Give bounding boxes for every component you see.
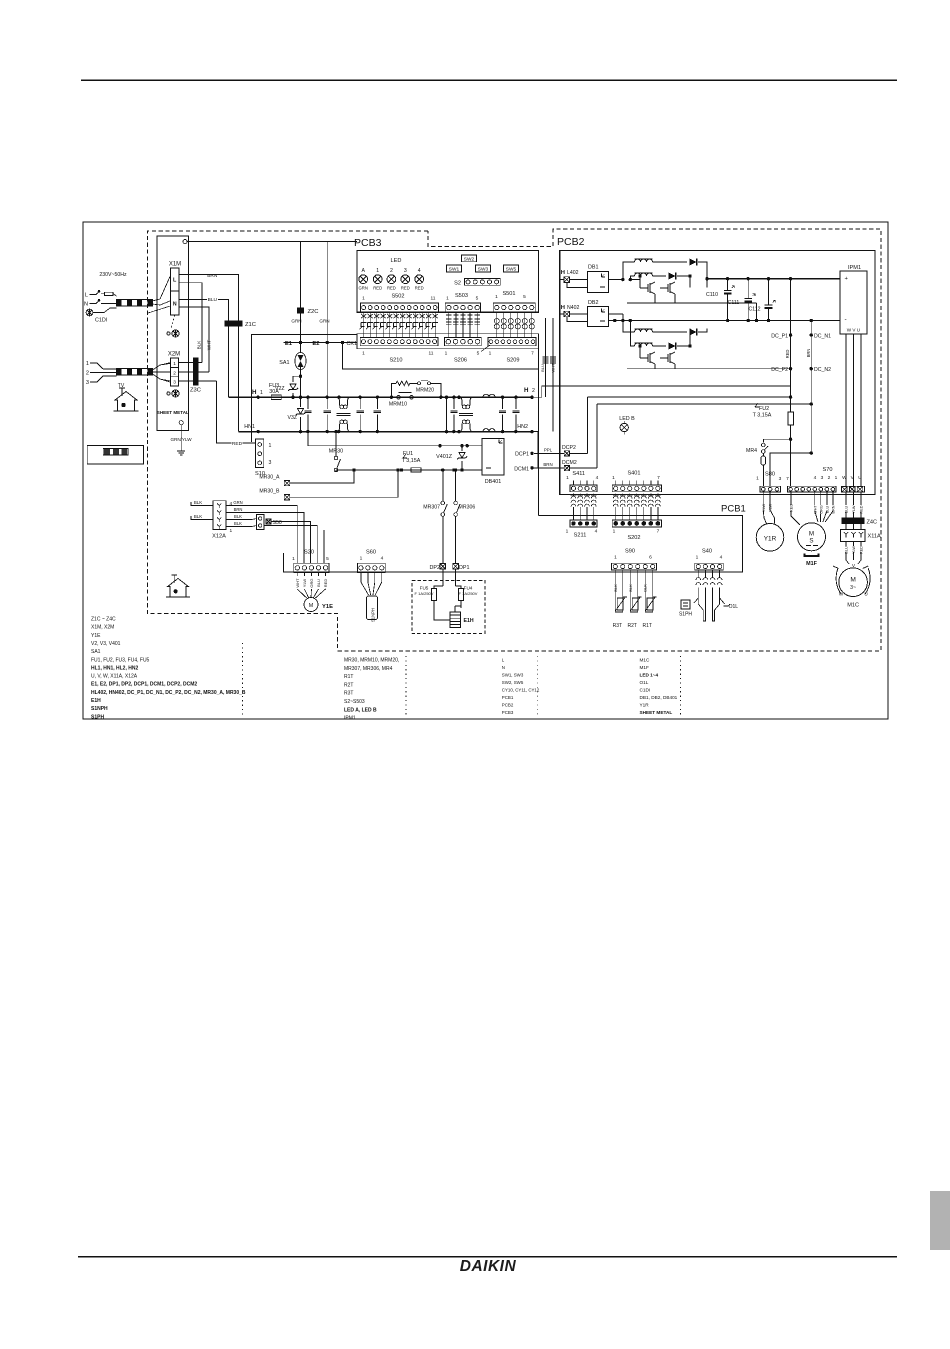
svg-text:DC_N2: DC_N2 — [814, 367, 831, 373]
svg-text:ORG: ORG — [819, 505, 823, 514]
X2M pin wires through Z3C — [179, 362, 202, 364]
svg-text:C110: C110 — [706, 292, 718, 298]
svg-text:MR307, MR306, MR4: MR307, MR306, MR4 — [344, 666, 393, 672]
svg-text:BLU: BLU — [845, 546, 849, 554]
svg-text:PCB3: PCB3 — [354, 237, 382, 249]
thermistor R3T — [615, 578, 622, 612]
svg-text:BRN: BRN — [806, 349, 811, 358]
svg-text:N402: N402 — [567, 305, 580, 311]
svg-text:O1L: O1L — [640, 680, 649, 685]
svg-text:WHT: WHT — [295, 578, 300, 588]
wire BLU from X1M N — [179, 299, 228, 397]
svg-text:3: 3 — [173, 380, 176, 386]
svg-text:O1L: O1L — [729, 604, 739, 610]
svg-text:GRN: GRN — [359, 286, 368, 291]
sheet metal plate — [157, 236, 189, 430]
svg-text:DB401: DB401 — [485, 479, 501, 485]
earth wire GRN to E1 — [300, 242, 302, 343]
inner box power section — [252, 335, 357, 443]
svg-text:S40: S40 — [702, 549, 712, 555]
svg-text:SW1, SW3: SW1, SW3 — [502, 673, 524, 678]
svg-text:HN2: HN2 — [517, 424, 528, 430]
svg-text:RED: RED — [860, 505, 864, 513]
svg-text:1: 1 — [230, 528, 233, 534]
svg-text:Z1C: Z1C — [245, 322, 256, 328]
supply earth symbol — [86, 309, 93, 316]
svg-text:E1H: E1H — [91, 698, 101, 704]
svg-text:HL402, HN402, DC_P1, DC_N1, DC: HL402, HN402, DC_P1, DC_N1, DC_P2, DC_N2… — [91, 690, 246, 696]
wire HN2 to DCM1 — [532, 432, 538, 468]
svg-text:7: 7 — [786, 476, 789, 482]
wire DC_N1 column — [810, 319, 813, 322]
wire E2 to N bus — [326, 343, 328, 410]
svg-text:4: 4 — [230, 501, 233, 507]
capacitor column mid — [445, 396, 448, 399]
connector S206 — [445, 338, 482, 346]
svg-text:1: 1 — [86, 361, 89, 367]
wire BLK from X1M L down to X2M 1 — [179, 283, 202, 363]
svg-text:5: 5 — [523, 294, 526, 300]
svg-text:2: 2 — [173, 370, 176, 376]
svg-text:R3T: R3T — [613, 623, 622, 629]
terminal DP1 — [453, 564, 459, 570]
page bottom rule — [78, 1256, 897, 1258]
svg-text:C111: C111 — [728, 300, 740, 306]
svg-text:C1DI: C1DI — [95, 318, 107, 324]
svg-text:1: 1 — [495, 294, 498, 300]
wire FU2 to S80 — [790, 439, 792, 448]
choke hook on H bus — [483, 394, 495, 397]
node DC_N2 — [810, 367, 813, 370]
X1M earth lead — [171, 315, 175, 329]
svg-text:GRN: GRN — [319, 319, 329, 324]
legend separator 3 — [536, 656, 538, 716]
svg-text:3: 3 — [404, 268, 407, 274]
connector S10 — [256, 439, 264, 468]
DC minus rail — [609, 320, 840, 322]
svg-text:Y1R: Y1R — [764, 536, 777, 543]
svg-text:3: 3 — [821, 475, 824, 481]
svg-text:LED: LED — [391, 258, 402, 264]
svg-text:S: S — [809, 538, 813, 545]
svg-text:MRM10: MRM10 — [389, 402, 407, 408]
svg-text:WHT: WHT — [551, 363, 556, 373]
thermistor R2T — [630, 578, 637, 612]
svg-text:RED: RED — [860, 546, 864, 554]
compressor wires — [845, 492, 847, 505]
svg-text:L: L — [85, 293, 88, 299]
svg-text:1: 1 — [446, 296, 449, 302]
svg-text:DAIKIN: DAIKIN — [460, 1258, 517, 1275]
PCB3 connector row box — [357, 334, 539, 349]
PCB3 board outline — [357, 250, 539, 312]
svg-text:DCP1: DCP1 — [515, 452, 529, 458]
svg-text:V3Z: V3Z — [287, 415, 297, 421]
S503 protection components — [448, 312, 450, 337]
legend separator 4 — [679, 656, 681, 716]
svg-text:MR307: MR307 — [423, 505, 440, 511]
svg-text:BLK: BLK — [194, 500, 202, 505]
svg-text:M: M — [850, 577, 856, 584]
wire H bus branch to DB401 — [308, 432, 482, 446]
svg-text:S20: S20 — [304, 550, 314, 556]
svg-text:1: 1 — [362, 351, 365, 357]
svg-text:S401: S401 — [627, 471, 640, 477]
fan motor M1F — [790, 492, 792, 505]
wire WHT to HN2 — [552, 318, 554, 432]
svg-text:S502: S502 — [391, 294, 404, 300]
S411 pin stubs — [572, 481, 574, 485]
resistor MRM20 bypass — [391, 383, 396, 397]
thermistor R1T — [645, 578, 652, 612]
wire MR30_B — [290, 470, 398, 497]
svg-text:BLU: BLU — [845, 506, 849, 514]
svg-text:BLK: BLK — [234, 514, 242, 519]
svg-text:1: 1 — [260, 390, 263, 396]
svg-text:7: 7 — [657, 529, 660, 535]
earth wire GRN to E2 — [326, 242, 328, 343]
svg-text:S1NPH: S1NPH — [91, 706, 108, 712]
svg-text:S209: S209 — [506, 358, 519, 364]
svg-text:FU4: FU4 — [464, 586, 473, 591]
svg-text:BRN: BRN — [234, 507, 243, 512]
svg-text:H: H — [561, 305, 565, 311]
svg-text:N: N — [502, 665, 505, 670]
svg-text:1: 1 — [696, 555, 699, 561]
page top rule — [81, 79, 897, 81]
heater E1H — [450, 612, 461, 628]
svg-text:MR30_A: MR30_A — [259, 475, 280, 481]
svg-text:YLW: YLW — [852, 505, 856, 513]
svg-text:SW2: SW2 — [464, 256, 475, 262]
svg-text:3: 3 — [269, 460, 272, 466]
svg-text:X2M: X2M — [168, 352, 180, 358]
svg-text:1: 1 — [566, 529, 569, 535]
svg-text:DC_N1: DC_N1 — [814, 334, 831, 340]
svg-text:MR306: MR306 — [459, 505, 476, 511]
svg-text:5: 5 — [477, 351, 480, 357]
svg-text:R1T: R1T — [344, 674, 353, 680]
switch SW3 — [476, 265, 491, 272]
sheet metal earth GRN/YLW — [179, 421, 183, 425]
svg-text:S206: S206 — [454, 358, 467, 364]
ferrite core Z4C — [842, 518, 865, 524]
N bus wire — [238, 431, 532, 433]
svg-text:S1PH: S1PH — [679, 612, 692, 618]
svg-text:Z1C ~ Z4C: Z1C ~ Z4C — [91, 617, 116, 623]
svg-text:ORG: ORG — [309, 578, 314, 587]
svg-text:IPM1: IPM1 — [848, 265, 861, 271]
capacitor column 4 — [376, 396, 379, 399]
svg-text:GRN: GRN — [233, 500, 242, 505]
sensor S1NPH — [361, 573, 369, 596]
S502 protection components — [363, 312, 365, 337]
svg-text:1: 1 — [614, 555, 617, 561]
svg-text:1: 1 — [489, 351, 492, 357]
connector X11A — [841, 530, 866, 542]
svg-text:TV: TV — [118, 383, 125, 389]
svg-text:R2T: R2T — [628, 623, 637, 629]
svg-text:1: 1 — [566, 475, 569, 481]
inverter cell 1 (DB1) — [609, 279, 623, 281]
svg-text:5: 5 — [476, 296, 479, 302]
svg-text:3: 3 — [86, 380, 89, 386]
svg-text:RED: RED — [387, 286, 396, 291]
svg-text:S211: S211 — [574, 533, 587, 539]
oil level switch O1L — [720, 592, 725, 604]
svg-text:V2Z: V2Z — [275, 386, 285, 392]
svg-text:1: 1 — [173, 361, 176, 367]
svg-text:BLU: BLU — [316, 579, 321, 587]
page edge grey tab — [930, 1191, 950, 1250]
svg-text:SW3: SW3 — [478, 267, 489, 273]
PCB2 board outline — [560, 250, 875, 494]
svg-text:Y1E: Y1E — [322, 604, 333, 610]
svg-text:11: 11 — [429, 351, 434, 357]
svg-text:DB1, DB2, DB401: DB1, DB2, DB401 — [640, 695, 678, 700]
PCB1 board outline — [284, 516, 743, 572]
connector S210 — [360, 338, 438, 346]
wire S80 pin3 to DC_N — [770, 453, 811, 486]
svg-text:2: 2 — [828, 475, 831, 481]
svg-text:FU1, FU2, FU3, FU4, FU5: FU1, FU2, FU3, FU4, FU5 — [91, 657, 150, 663]
X12A left stubs BLK — [191, 502, 213, 506]
model plate — [87, 446, 144, 464]
wire PCB1 sense riser — [538, 334, 540, 516]
node DC_N1 — [810, 333, 813, 336]
capacitor column 1 — [306, 396, 309, 399]
svg-text:M: M — [309, 603, 314, 609]
svg-text:SA1: SA1 — [91, 649, 101, 655]
wire DC_P1 column — [789, 277, 792, 280]
svg-text:T 3,15A: T 3,15A — [402, 458, 421, 464]
svg-text:PCB3: PCB3 — [502, 710, 514, 715]
expansion valve Y1E — [297, 589, 306, 598]
connector S209 — [488, 338, 536, 346]
svg-text:W V U: W V U — [847, 328, 860, 333]
S501 relay coils — [496, 312, 498, 337]
svg-text:1: 1 — [292, 556, 295, 562]
svg-text:X1M, X2M: X1M, X2M — [91, 625, 114, 631]
svg-text:DC_P1: DC_P1 — [771, 334, 788, 340]
svg-text:U, V, W, X11A, X12A: U, V, W, X11A, X12A — [91, 674, 138, 680]
svg-text:BLU: BLU — [540, 364, 545, 372]
svg-text:RED: RED — [401, 286, 410, 291]
svg-text:-: - — [845, 316, 847, 323]
svg-text:GRN/YLW: GRN/YLW — [170, 437, 192, 442]
svg-text:HL1, HN1, HL2, HN2: HL1, HN1, HL2, HN2 — [91, 665, 138, 671]
earth wire GRN bus — [183, 240, 187, 244]
svg-text:WHT: WHT — [207, 340, 212, 351]
svg-text:BLU: BLU — [825, 506, 829, 514]
svg-text:M: M — [809, 531, 814, 538]
svg-text:SW5: SW5 — [506, 267, 517, 273]
svg-text:E1H: E1H — [464, 618, 474, 624]
svg-text:MR30, MRM10, MRM20,: MR30, MRM10, MRM20, — [344, 658, 399, 664]
ferrite core Z1C — [224, 320, 242, 326]
svg-text:LED 1~4: LED 1~4 — [640, 673, 659, 678]
svg-text:1: 1 — [445, 351, 448, 357]
wire WHT from X1M N down to X2M 2 — [179, 307, 209, 372]
compressor motor M1C — [846, 552, 849, 564]
svg-text:4: 4 — [596, 475, 599, 481]
capacitor column 5 — [501, 396, 504, 399]
svg-text:S2~S503: S2~S503 — [344, 699, 365, 705]
svg-text:FU2: FU2 — [759, 406, 769, 412]
DC plus rail — [707, 278, 840, 280]
svg-text:V401Z: V401Z — [436, 454, 453, 460]
wire DCM2 run — [596, 404, 598, 468]
svg-text:H: H — [524, 387, 529, 394]
wire DCP2 run — [587, 397, 589, 453]
svg-text:2: 2 — [86, 371, 89, 377]
connector X12A — [213, 501, 226, 530]
unit boundary dashed — [147, 229, 881, 651]
svg-text:CY10, CY11, CY12: CY10, CY11, CY12 — [502, 688, 540, 693]
S90 thermistor wires — [614, 570, 616, 578]
svg-text:4: 4 — [418, 268, 421, 274]
svg-text:5: 5 — [326, 556, 329, 562]
svg-text:V2, V3, V401: V2, V3, V401 — [91, 641, 121, 647]
svg-text:A: A — [361, 268, 365, 274]
svg-text:RED: RED — [415, 286, 424, 291]
svg-text:YLW: YLW — [302, 579, 307, 588]
svg-text:SHEET METAL: SHEET METAL — [157, 410, 189, 415]
svg-text:3~: 3~ — [850, 585, 856, 591]
svg-text:DCP2: DCP2 — [562, 445, 576, 451]
connector S202 — [612, 520, 661, 527]
svg-text:PCB1: PCB1 — [721, 504, 746, 515]
svg-text:BLU: BLU — [208, 297, 218, 303]
svg-text:E1, E2, DP1, DP2, DCP1, DCM1,: E1, E2, DP1, DP2, DCP1, DCM1, DCP2, DCM2 — [91, 682, 197, 688]
compressor lead labels — [845, 542, 847, 547]
svg-text:3: 3 — [779, 476, 782, 482]
diode bridge DB401 — [482, 438, 504, 475]
wire RED from X2M 3 to S10 — [216, 381, 255, 443]
wire E1-E2 row — [284, 342, 357, 344]
svg-text:PPL: PPL — [544, 448, 553, 453]
svg-text:S210: S210 — [389, 358, 402, 364]
svg-text:PCB1: PCB1 — [502, 695, 514, 700]
TV interference house icon — [114, 388, 139, 411]
svg-text:4: 4 — [595, 529, 598, 535]
S401 pin stubs — [615, 481, 617, 485]
option E1H dashed box — [412, 581, 485, 634]
svg-text:DB2: DB2 — [588, 300, 599, 306]
svg-text:H: H — [252, 389, 257, 396]
IPM1 output wires — [845, 334, 847, 486]
H bus wire — [228, 396, 532, 398]
switch SW1 — [447, 265, 462, 272]
common mode choke L2 — [457, 396, 460, 399]
svg-text:BRN: BRN — [207, 273, 218, 279]
svg-text:X1M: X1M — [169, 262, 181, 268]
svg-text:2: 2 — [390, 268, 393, 274]
ferrite core Z3C — [193, 357, 198, 385]
svg-text:MR30_B: MR30_B — [259, 489, 280, 495]
svg-text:RED: RED — [373, 286, 382, 291]
svg-text:M1C: M1C — [847, 603, 859, 609]
svg-text:Y1E: Y1E — [91, 633, 101, 639]
earth screw below X1M — [167, 332, 170, 335]
svg-text:1: 1 — [613, 529, 616, 535]
svg-text:7: 7 — [657, 475, 660, 481]
svg-text:E2: E2 — [312, 341, 319, 347]
S20 wire colours — [296, 573, 298, 577]
house icon bottom-left — [166, 575, 190, 597]
svg-text:F 1A/250V: F 1A/250V — [459, 591, 478, 596]
svg-text:U: U — [858, 475, 862, 481]
svg-text:BRN: BRN — [543, 462, 552, 467]
svg-text:C112: C112 — [748, 307, 760, 313]
svg-text:S1PH: S1PH — [91, 714, 104, 720]
S411 filter chokes — [572, 494, 574, 496]
svg-text:BLK: BLK — [194, 514, 202, 519]
svg-text:H: H — [561, 270, 565, 276]
svg-text:BLK: BLK — [234, 521, 242, 526]
svg-text:11: 11 — [431, 296, 436, 302]
legend separator 2 — [405, 656, 407, 716]
svg-text:1: 1 — [360, 556, 363, 562]
legend separator 1 — [242, 643, 244, 716]
svg-text:DC_P2: DC_P2 — [771, 367, 788, 373]
common mode choke L1 — [337, 396, 340, 399]
inverter cell 2 (DB2) — [609, 313, 623, 315]
relay contact MRM10 on H bus — [397, 395, 401, 399]
svg-text:M1F: M1F — [640, 665, 650, 670]
switch SW5 — [504, 265, 519, 272]
wire HL2 to FU2 column — [532, 386, 791, 397]
svg-text:1: 1 — [835, 475, 838, 481]
connector S211 — [570, 520, 597, 527]
svg-text:X12A: X12A — [212, 534, 226, 540]
svg-text:6: 6 — [649, 555, 652, 561]
svg-text:E1: E1 — [285, 341, 293, 347]
wire from S209 pin1 — [481, 345, 490, 352]
svg-text:S503: S503 — [455, 293, 468, 299]
svg-text:4: 4 — [720, 555, 723, 561]
svg-text:M1F: M1F — [806, 561, 817, 567]
svg-text:1: 1 — [376, 268, 379, 274]
capacitor column 3 — [359, 396, 362, 399]
svg-text:F 1A/250V: F 1A/250V — [415, 591, 434, 596]
diagram outer frame — [83, 222, 888, 719]
svg-text:MRM20: MRM20 — [416, 388, 434, 394]
wire CK1 to PCB1 — [343, 343, 539, 370]
fuse FU2 lower wire and relay MR4 — [789, 438, 792, 441]
svg-text:C1DI: C1DI — [640, 688, 651, 693]
svg-text:SW2, SW5: SW2, SW5 — [502, 680, 524, 685]
S401 filter chokes — [615, 494, 617, 496]
svg-text:1: 1 — [269, 443, 272, 449]
svg-text:S60: S60 — [366, 550, 376, 556]
wires X12A to S20 — [245, 506, 297, 564]
capacitor column 6 — [514, 396, 517, 399]
earth screw below X2M — [167, 392, 170, 395]
svg-text:RED: RED — [323, 579, 328, 588]
svg-text:X11A: X11A — [868, 534, 882, 540]
capacitor column 2 — [326, 396, 329, 399]
svg-text:Y1R: Y1R — [640, 703, 650, 708]
svg-text:DP2: DP2 — [430, 565, 441, 571]
svg-text:1: 1 — [612, 475, 615, 481]
wire BLU to HL2 — [545, 318, 547, 397]
svg-text:IPM1: IPM1 — [344, 716, 356, 722]
svg-text:MR4: MR4 — [746, 448, 757, 454]
indoor cable to X2M — [117, 369, 153, 376]
svg-text:2: 2 — [532, 388, 535, 394]
svg-text:1: 1 — [756, 476, 759, 482]
